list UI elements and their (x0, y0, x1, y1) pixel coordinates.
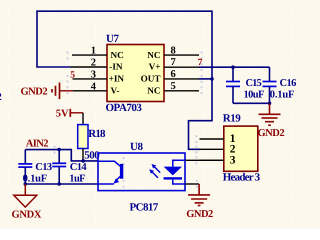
power GND2 (left, pin4) (21, 83, 74, 100)
svg-text:3: 3 (91, 69, 96, 80)
svg-text:-IN: -IN (109, 62, 123, 72)
node junction OUT (210, 77, 214, 81)
node junction R18/collector (81, 159, 85, 163)
svg-text:7: 7 (198, 58, 203, 68)
light arrows (154, 166, 161, 173)
transistor Q (photo) (98, 161, 120, 166)
wire caps bottom rail (233, 102, 270, 104)
wire LED cathode to ground (185, 183, 199, 185)
LED D (emitter) (173, 160, 185, 166)
pin 7 (164, 66, 199, 68)
svg-text:5: 5 (70, 70, 75, 80)
pin 1 (200, 138, 224, 140)
svg-text:U8: U8 (130, 141, 143, 153)
wire R18 bottom (82, 149, 84, 161)
pin 2 (71, 66, 108, 68)
pin 3 (73, 78, 108, 80)
pin 8 (164, 54, 199, 56)
svg-text:GND2: GND2 (258, 128, 285, 139)
node junction C14 tap (57, 148, 61, 152)
capacitor C13 (18, 150, 52, 185)
pin 4 (73, 90, 107, 92)
svg-text:3: 3 (230, 155, 236, 167)
svg-text:5: 5 (171, 81, 176, 92)
power 5V (56, 108, 83, 119)
capacitor C15 (226, 67, 264, 103)
svg-text:GND2: GND2 (186, 209, 213, 220)
svg-text:NC: NC (147, 50, 160, 60)
wire AIN2 net (25, 150, 98, 161)
wire LED anode to header pin 3 (185, 159, 224, 161)
svg-text:PC817: PC817 (130, 202, 159, 214)
wire 5V to R18 (82, 113, 84, 125)
svg-text:V-: V- (111, 85, 120, 95)
node junction gnd tap (268, 102, 272, 106)
svg-text:2: 2 (0, 92, 2, 103)
node junction C14 gnd (57, 182, 61, 186)
pin 3 (200, 159, 224, 161)
optocoupler U8 (98, 141, 185, 213)
svg-text:OPA703: OPA703 (106, 102, 143, 114)
wire pin6 OUT to vertical (199, 78, 213, 80)
svg-text:NC: NC (111, 50, 124, 60)
wire feedback loop: -IN to OUT (37, 11, 212, 149)
svg-text:Header 3: Header 3 (223, 172, 261, 184)
svg-text:C15: C15 (246, 78, 262, 89)
wire emitter rail (25, 183, 98, 185)
svg-text:NC: NC (147, 85, 160, 95)
pin 2 (200, 148, 224, 150)
svg-text:GNDX: GNDX (12, 209, 42, 220)
pin end markers (54, 52, 203, 188)
ground GND2 (caps) (259, 103, 281, 125)
svg-text:C14: C14 (70, 162, 88, 173)
svg-text:GND2: GND2 (21, 87, 48, 98)
svg-text:4: 4 (91, 81, 97, 92)
header R19 / Header 3 (200, 113, 261, 184)
capacitor C16 (263, 67, 297, 103)
svg-text:OUT: OUT (141, 74, 161, 84)
node junction C15 tap (231, 65, 235, 69)
op-amp U7 (71, 33, 200, 114)
pin 1 (72, 54, 107, 56)
svg-text:C13: C13 (35, 162, 52, 173)
svg-text:AIN2: AIN2 (26, 139, 48, 150)
node junction C13 gnd (24, 182, 28, 186)
svg-text:1uF: 1uF (69, 173, 85, 184)
svg-text:R18: R18 (88, 128, 106, 140)
ground GNDX (12, 184, 42, 220)
svg-text:5V: 5V (56, 108, 69, 119)
pin 5 (164, 90, 199, 92)
svg-text:C16: C16 (280, 78, 297, 89)
svg-text:6: 6 (171, 69, 176, 80)
svg-text:0.1uF: 0.1uF (270, 90, 294, 101)
pin 6 (164, 78, 199, 80)
svg-text:1: 1 (91, 46, 96, 57)
svg-text:+IN: +IN (109, 74, 125, 84)
svg-text:2: 2 (91, 58, 96, 69)
svg-text:U7: U7 (106, 33, 119, 45)
svg-text:10uF: 10uF (244, 90, 265, 101)
svg-text:8: 8 (171, 45, 176, 56)
ground GND2 (U8) (188, 184, 210, 206)
resistor R18 (78, 125, 106, 162)
svg-text:R19: R19 (223, 113, 241, 125)
svg-text:7: 7 (171, 57, 176, 68)
svg-text:V+: V+ (149, 62, 161, 72)
capacitor C14 (52, 150, 87, 185)
wire V+ net pin7 to caps (199, 66, 270, 68)
